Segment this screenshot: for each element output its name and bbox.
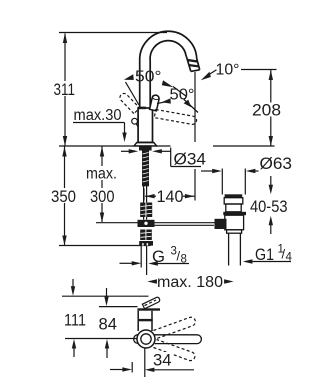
spout tip inner edge [186, 57, 190, 72]
max.30 down arrow [122, 133, 126, 143]
dim 34 [110, 369, 124, 371]
dimension max300 line [101, 147, 103, 223]
spout vertical pipe [140, 31, 200, 108]
lever dashed right position [154, 110, 196, 125]
svg-text:84: 84 [99, 315, 118, 334]
spout tip outer edge [197, 59, 200, 70]
threaded hose-nut block [140, 203, 152, 218]
label 300 [88, 188, 116, 203]
svg-text:111: 111 [64, 311, 86, 330]
label 350 [50, 188, 78, 203]
angle 50-2 left leader [157, 102, 166, 104]
body top reference line [99, 306, 138, 308]
dimension 40-53 top arrow [270, 176, 272, 186]
side lever dashes [145, 300, 157, 306]
lever knob end cap [152, 95, 160, 101]
side lever [142, 297, 159, 308]
side spout dashed down [154, 340, 195, 361]
drain tailpipe [228, 233, 230, 265]
flexible hoses below [140, 246, 142, 268]
side body mid band [138, 319, 153, 321]
dimension 311 bottom arrow [63, 136, 67, 146]
faucet body top cap band [138, 107, 146, 110]
base flange [134, 143, 157, 146]
dimension 350 top arrow [62, 147, 66, 157]
dimension max300 top arrow [100, 147, 104, 157]
rod fitting at faucet [138, 220, 155, 227]
drain left knob [215, 219, 227, 229]
deck line right [213, 145, 275, 147]
lever top reference line [62, 295, 149, 297]
svg-text:50°: 50° [135, 69, 162, 86]
svg-text:max.: max. [86, 166, 117, 183]
svg-text:max. 180: max. 180 [157, 274, 223, 291]
G3/8 inward arrow left [120, 262, 134, 264]
deck line left [59, 145, 171, 147]
10 degree leader line [208, 70, 217, 76]
dim 84 top arrow [106, 288, 108, 298]
side spout solid [155, 335, 202, 344]
side joint outer circle [137, 330, 155, 348]
dimension 350 bottom arrow [62, 236, 66, 246]
dimension 208 bottom arrow [269, 136, 273, 146]
drain: O63 extension lines [221, 169, 223, 195]
hose nut block lower [140, 230, 152, 241]
angle 50-1 left leader [126, 82, 140, 105]
svg-text:Ø63: Ø63 [260, 155, 293, 173]
lever solid (up position) [150, 95, 159, 111]
svg-text:50°: 50° [170, 87, 195, 104]
dim 111 bottom arrow [73, 348, 75, 357]
dimension O34 arrows [121, 150, 133, 152]
spout outer curve [140, 31, 197, 61]
dimension 40-53 bottom arrow [270, 224, 272, 234]
svg-text:Ø34: Ø34 [174, 151, 207, 169]
top right reference line [241, 69, 277, 71]
svg-text:311: 311 [54, 80, 76, 99]
dim 84 bottom arrow [106, 348, 108, 358]
drain nut black band [223, 212, 246, 215]
label 34 [152, 352, 173, 367]
pop-up knob link [136, 124, 138, 128]
label 311 [50, 81, 77, 96]
dimension max300 bottom arrow [100, 213, 104, 223]
horizontal pop-up rod [96, 222, 216, 224]
svg-text:208: 208 [252, 102, 281, 120]
label 208 [251, 103, 281, 117]
pop-up knob circle on body [132, 118, 138, 124]
neck below nut [143, 217, 145, 220]
dimension 208 top arrow [269, 70, 273, 80]
angle 50-2 right leader [184, 100, 198, 113]
threaded rod [142, 151, 149, 187]
side joint left nub [134, 335, 138, 344]
dimension 311 line [64, 34, 66, 146]
svg-text:10°: 10° [216, 62, 240, 79]
side spout dashed up [154, 317, 196, 338]
drain neck [226, 204, 241, 212]
top reference line (spout top level) [59, 32, 167, 34]
10 degree arrowhead [201, 72, 211, 81]
drain step [227, 230, 242, 233]
lever dashed left position [120, 93, 140, 113]
drain plug black band [225, 194, 243, 197]
side body cap band [137, 308, 160, 310]
drain flange body [224, 198, 243, 204]
dimension 350 line [64, 147, 66, 246]
angle 50-1 right leader [173, 87, 187, 97]
thin hose lines upper [143, 186, 145, 203]
svg-text:max.30: max.30 [74, 107, 122, 124]
shank hatched below deck [139, 146, 152, 150]
dimension 311 top arrow [63, 33, 67, 43]
O34 label frame [170, 148, 172, 167]
svg-text:34: 34 [153, 351, 172, 370]
svg-text:8: 8 [181, 254, 187, 266]
dim 111 top arrow [72, 279, 74, 290]
svg-text:140: 140 [157, 188, 184, 206]
svg-text:350: 350 [51, 187, 76, 206]
spout tip reference line [194, 72, 196, 142]
svg-text:G: G [152, 247, 165, 266]
label max. [85, 166, 118, 180]
dimension 140 [143, 189, 145, 201]
aerator band 2 [188, 64, 198, 68]
dimension max.180 [147, 279, 157, 283]
spout centerline reference [65, 338, 137, 340]
spout inner curve [150, 41, 186, 61]
spout tip end [191, 70, 200, 72]
350 reference line (hose end level) [59, 245, 151, 247]
O63 dim arrows [201, 170, 213, 172]
drain body [225, 215, 244, 230]
G3/8 label and underline [148, 261, 158, 265]
aerator band 1 [187, 59, 198, 63]
faucet body outline [138, 108, 152, 142]
svg-text:300: 300 [90, 187, 115, 206]
side body [138, 311, 152, 331]
side joint inner circle [141, 334, 151, 344]
svg-text:40-53: 40-53 [250, 198, 288, 216]
dimension 208 line [270, 70, 272, 146]
hose nut footer [139, 241, 153, 246]
